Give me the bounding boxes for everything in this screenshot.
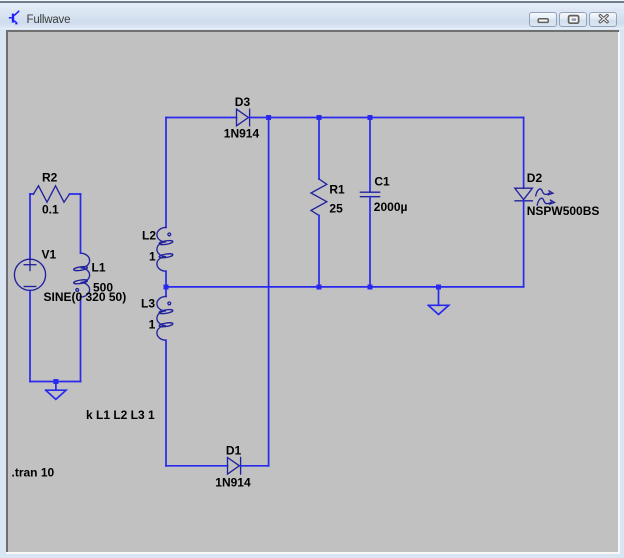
resistor R2 bbox=[30, 193, 34, 195]
junction left-loop ground node bbox=[53, 379, 58, 384]
svg-text:C1: C1 bbox=[374, 175, 390, 189]
wire D2 top vertical bbox=[523, 118, 525, 189]
wire D2 bottom vertical bbox=[523, 201, 525, 287]
diode D3 bbox=[237, 109, 250, 126]
svg-text:1N914: 1N914 bbox=[215, 475, 251, 489]
svg-text:L1: L1 bbox=[92, 260, 106, 274]
wire D1 to right riser bbox=[241, 465, 269, 467]
wire L1 bottom vertical bbox=[80, 297, 82, 382]
svg-text:0.1: 0.1 bbox=[42, 203, 59, 217]
svg-text:.tran 10: .tran 10 bbox=[12, 466, 55, 480]
wire left vertical top (R2 to V1) bbox=[29, 194, 31, 259]
diode D1 bbox=[228, 458, 241, 475]
inductor L2 bbox=[157, 227, 173, 271]
wire C1 bottom lead bbox=[369, 197, 371, 287]
wire top rail to R1 bbox=[269, 117, 319, 119]
svg-text:D3: D3 bbox=[235, 95, 251, 109]
wire top rail left segment bbox=[166, 117, 237, 119]
svg-text:1: 1 bbox=[149, 249, 156, 263]
svg-text:1N914: 1N914 bbox=[224, 127, 260, 141]
capacitor C1 bbox=[360, 192, 379, 197]
wire right riser D1 to D3 output node bbox=[268, 118, 270, 466]
svg-text:V1: V1 bbox=[42, 247, 57, 261]
wire top rail R1 to C1 bbox=[319, 117, 370, 119]
wire bottom rail (center tap to ground and D2) bbox=[166, 286, 524, 288]
wire top rail C1 to D2 corner bbox=[370, 117, 524, 119]
wire L2 bottom to center-tap junction bbox=[165, 271, 167, 296]
junction R1 bottom bbox=[317, 285, 322, 290]
svg-text:L3: L3 bbox=[141, 296, 155, 310]
junction D3 output bbox=[266, 115, 271, 120]
svg-text:D2: D2 bbox=[527, 171, 543, 185]
ground (right) bbox=[428, 287, 448, 315]
titlebar app icon (transistor glyph) bbox=[6, 4, 30, 28]
resistor R1 bbox=[311, 179, 327, 216]
svg-text:k L1 L2 L3 1: k L1 L2 L3 1 bbox=[86, 408, 155, 422]
wire D3 cathode to node bbox=[250, 117, 269, 119]
svg-text:500: 500 bbox=[93, 280, 113, 294]
caption button glyphs bbox=[526, 6, 624, 30]
junction C1 top bbox=[368, 115, 373, 120]
ground (left) bbox=[46, 382, 66, 400]
svg-text:D1: D1 bbox=[226, 444, 242, 458]
svg-text:SINE(0 320 50): SINE(0 320 50) bbox=[44, 290, 127, 304]
wire L3 bottom down to D1 row bbox=[165, 340, 167, 466]
wire center vertical to L2 bbox=[165, 118, 167, 228]
LED D2 bbox=[515, 188, 555, 205]
wire D1 row left segment bbox=[166, 465, 228, 467]
wire L1 top vertical bbox=[80, 194, 82, 253]
inductor L3 bbox=[157, 296, 173, 340]
svg-text:1: 1 bbox=[149, 318, 156, 332]
wire C1 top lead bbox=[369, 118, 371, 193]
svg-text:25: 25 bbox=[329, 201, 343, 215]
svg-text:NSPW500BS: NSPW500BS bbox=[527, 204, 600, 218]
wire R1 top lead bbox=[318, 118, 320, 180]
voltage source V1 bbox=[14, 259, 45, 291]
junction center tap bbox=[164, 285, 169, 290]
svg-text:R2: R2 bbox=[42, 171, 58, 185]
inductor L1 bbox=[73, 253, 89, 297]
svg-text:R1: R1 bbox=[329, 183, 345, 197]
wire V1 bottom to bottom-left corner bbox=[29, 290, 31, 381]
junction C1 bottom bbox=[368, 285, 373, 290]
wire R1 bottom lead bbox=[318, 216, 320, 288]
wire bottom of left loop bbox=[30, 381, 81, 383]
junction R1 top bbox=[317, 115, 322, 120]
svg-text:2000µ: 2000µ bbox=[374, 200, 408, 214]
svg-text:L2: L2 bbox=[142, 229, 156, 243]
junction ground node bbox=[436, 285, 441, 290]
